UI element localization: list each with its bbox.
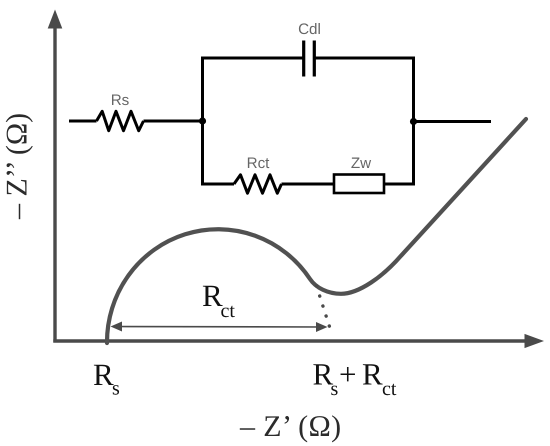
svg-text:Rct: Rct	[247, 155, 271, 172]
right vertical wire	[412, 57, 415, 186]
svg-text:R: R	[362, 357, 383, 392]
svg-text:ct: ct	[221, 300, 236, 322]
resistor Rct	[234, 175, 282, 193]
x-axis	[53, 334, 544, 348]
svg-text:– Z’’ (Ω): – Z’’ (Ω)	[1, 113, 34, 220]
warburg element Zw (box)	[334, 175, 384, 194]
svg-text:s: s	[112, 378, 120, 400]
wire resistor to left node	[144, 120, 204, 123]
right output wire	[414, 120, 492, 123]
top rail left segment	[203, 57, 304, 60]
Rct span double arrow	[111, 322, 328, 333]
svg-text:Zw: Zw	[351, 155, 371, 172]
node A (left junction)	[199, 117, 206, 124]
nyquist curve	[107, 119, 526, 343]
node B (right junction)	[410, 118, 417, 125]
left vertical wire	[201, 57, 204, 186]
dotted projection line at Rs+Rct	[317, 286, 333, 336]
svg-text:+: +	[339, 357, 356, 392]
top rail right segment	[315, 57, 414, 60]
y-axis	[48, 10, 63, 343]
svg-text:Cdl: Cdl	[298, 21, 321, 38]
svg-text:R: R	[93, 357, 114, 392]
svg-text:Rs: Rs	[111, 92, 130, 109]
bottom rail left segment	[203, 183, 235, 186]
svg-text:s: s	[331, 378, 339, 400]
circuit: left lead wire	[69, 120, 97, 123]
resistor Rs	[97, 111, 144, 130]
wire Rct to Zw	[282, 183, 335, 186]
wire Zw to right vertical	[384, 183, 414, 186]
capacitor Cdl	[304, 41, 315, 77]
svg-text:ct: ct	[382, 378, 397, 400]
svg-text:– Z’ (Ω): – Z’ (Ω)	[239, 410, 342, 443]
